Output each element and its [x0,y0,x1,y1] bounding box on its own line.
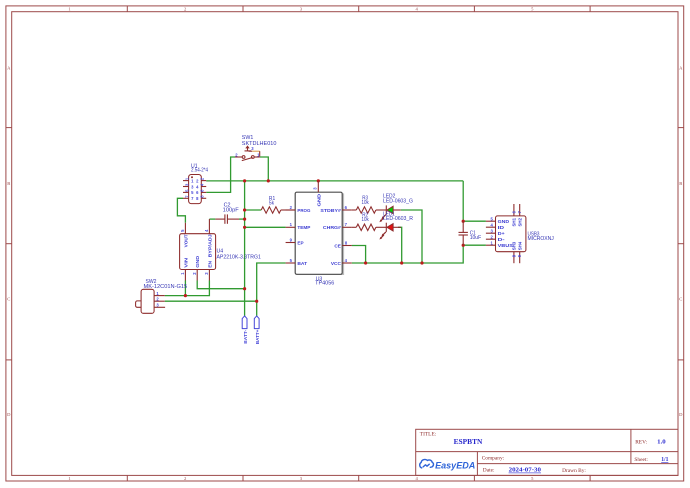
svg-text:1: 1 [290,222,293,227]
LED2 reference label [383,194,396,200]
svg-text:10uF: 10uF [470,235,482,241]
R3 reference label [362,196,368,202]
U1 reference label [191,164,198,170]
svg-text:4: 4 [345,258,348,263]
wire LED1 to VCC [398,227,402,263]
svg-text:A: A [7,66,11,71]
svg-text:Sheet:: Sheet: [634,457,648,463]
SW2 value MK-12C01N-G15 [144,284,188,290]
R3 value 10k [362,200,370,206]
wire SW1 pin1 to GND bus [260,157,269,181]
capacitor C2 symbol [215,214,239,223]
svg-text:10k: 10k [362,200,370,206]
connector USB3 symbol [486,204,526,263]
wire LED2 to VCC [401,210,422,263]
net flag BATT- [242,316,248,344]
wire SW2 pin2 to BATT+ [165,300,257,302]
svg-text:3: 3 [300,476,303,481]
SW2 pin numbers [156,291,159,308]
U3 reference label [316,276,323,282]
R1 reference label [269,196,275,202]
wire GND top bus [206,180,463,182]
svg-text:3: 3 [204,272,209,275]
SW2 reference label [146,279,157,285]
junction node VCC / LED2 [420,261,423,264]
svg-text:AP2210K-3.3TRG1: AP2210K-3.3TRG1 [217,255,262,261]
svg-text:REV:: REV: [635,440,647,446]
svg-text:CE: CE [334,243,341,249]
switch SW2 symbol [136,289,166,313]
svg-text:GND: GND [316,193,322,206]
svg-text:SH3: SH3 [512,242,518,251]
svg-text:U4: U4 [217,249,224,255]
svg-text:EN: EN [207,260,213,267]
svg-text:4: 4 [204,229,209,232]
svg-text:8: 8 [345,240,348,245]
U1 pin numbers (outside) [184,177,204,198]
svg-text:TP4056: TP4056 [315,280,334,286]
svg-text:2.54-2*4: 2.54-2*4 [191,168,208,174]
wire SW2 pin1 / U4 VIN / U4 EN [165,281,210,296]
svg-text:CHRG#: CHRG# [323,225,341,231]
svg-text:EasyEDA: EasyEDA [435,460,475,471]
wire R1 to GND [245,209,262,211]
C2 value 100pF [223,208,239,214]
svg-text:GND: GND [498,219,510,225]
svg-text:1: 1 [68,476,71,481]
svg-text:D: D [7,412,11,417]
svg-text:B: B [7,181,10,186]
svg-text:5k: 5k [269,200,275,206]
USB3 reference label [528,232,540,238]
resistor R1 symbol [261,207,295,213]
svg-text:LED-0603_R: LED-0603_R [383,216,413,222]
svg-text:1/1: 1/1 [661,457,668,463]
R2 value 10k [362,217,370,223]
resistor R3 symbol [352,207,387,213]
svg-text:VCC: VCC [331,261,341,267]
svg-text:4: 4 [415,7,418,12]
LED1 reference label [383,211,395,217]
svg-text:5: 5 [290,258,293,263]
svg-text:MK-12C01N-G15: MK-12C01N-G15 [144,284,188,290]
svg-text:GND: GND [195,255,201,268]
wire U3 BAT to BATT+ [257,263,286,316]
U1 value 2.54-2*4 [191,168,208,174]
resistor R2 symbol [352,224,387,230]
LED LED1 symbol [379,223,400,240]
SW1 pin numbers [235,146,260,157]
junction node BAT / SW2.2 [255,300,258,303]
svg-text:B: B [679,181,682,186]
wire GND vertical to BATT- [244,181,246,316]
net flag BATT+ [254,316,260,344]
wire TEMP to GND [245,226,286,228]
svg-text:10k: 10k [362,217,370,223]
wire BYP to C2 [209,218,215,220]
wire GND bus down right side [462,181,464,221]
svg-text:4: 4 [415,476,418,481]
C2 reference label [224,203,231,209]
junction node GND / U4 GND [243,287,246,290]
LED2 value LED-0603_G [383,198,413,204]
svg-text:2: 2 [156,296,159,301]
svg-text:SKTDLHE010: SKTDLHE010 [242,141,277,147]
junction node VBUS / USB VBUS / C1 [462,244,465,247]
switch SW1 symbol [235,145,260,160]
svg-text:7: 7 [345,222,348,227]
svg-text:D+: D+ [498,231,505,237]
svg-text:SH1: SH1 [512,218,518,227]
regulator U4 symbol [180,219,216,280]
svg-text:Drawn By:: Drawn By: [562,468,586,474]
svg-text:2: 2 [184,7,187,12]
U3 value TP4056 [315,280,334,286]
C1 value 10uF [470,235,482,241]
svg-text:ID: ID [498,225,505,231]
svg-text:BYP/ADJ: BYP/ADJ [207,234,213,257]
SW1 value SKTDLHE010 [242,141,277,147]
svg-text:VIN: VIN [184,257,190,268]
svg-text:C: C [679,297,682,302]
svg-text:BAT: BAT [297,261,307,267]
svg-text:Company:: Company: [482,456,505,462]
USB3 pin numbers [491,210,523,257]
wire CE to VCC [352,246,366,264]
svg-text:1.0: 1.0 [657,440,666,446]
svg-text:D-: D- [498,237,505,243]
wire USB VBUS pin [463,244,486,246]
U3 pin numbers [290,187,348,263]
IC U3 symbol [286,181,352,274]
svg-text:VOUT: VOUT [184,234,190,247]
svg-text:1: 1 [156,291,159,296]
R1 value 5k [269,200,275,206]
SW1 reference label [242,135,254,141]
svg-text:BATT-: BATT- [243,329,248,344]
junction node GND / R1 [243,208,246,211]
svg-text:5: 5 [531,476,534,481]
junction node GND bus / U3 GND pin [317,179,320,182]
svg-text:5: 5 [531,7,534,12]
svg-text:D: D [679,412,683,417]
junction node GND / USB GND / C1 [462,220,465,223]
R2 reference label [362,213,368,219]
svg-text:6: 6 [345,205,348,210]
svg-text:MICROXNJ: MICROXNJ [528,236,555,242]
U4 reference label [217,249,224,255]
svg-text:LED-0603_G: LED-0603_G [383,198,413,204]
svg-text:2: 2 [184,476,187,481]
svg-text:SH4: SH4 [517,242,523,251]
svg-text:5: 5 [180,229,185,232]
svg-text:2: 2 [192,272,197,275]
U4 pin numbers [180,229,209,275]
svg-text:2024-07-30: 2024-07-30 [509,468,541,474]
wire U3 VCC line [352,245,463,263]
wire C2 right to GND [239,218,245,220]
LED LED2 symbol [379,205,400,222]
svg-text:BATT+: BATT+ [255,329,260,344]
capacitor C1 symbol [459,221,468,245]
svg-text:ESPBTN: ESPBTN [454,437,483,446]
wire U4 GND to GND net [197,281,244,289]
svg-text:2: 2 [290,205,293,210]
wire SW1 pin2 to U1 pin6 [206,157,235,192]
U4 value AP2210K-3.3TRG1 [217,255,262,261]
svg-text:STDBY#: STDBY# [320,208,341,214]
svg-text:C: C [7,297,10,302]
svg-text:TITLE:: TITLE: [420,431,437,437]
svg-text:9: 9 [290,237,293,242]
junction node VCC / CE [364,261,367,264]
LED1 value LED-0603_R [383,216,413,222]
svg-text:PROG: PROG [297,208,310,214]
svg-text:TEMP: TEMP [297,225,311,231]
junction node GND / U3 TEMP [243,226,246,229]
wire U1 pin7 to U4 VOUT [177,198,185,223]
svg-text:3: 3 [251,146,254,151]
junction node GND / C2 [243,218,246,221]
svg-text:VBUS: VBUS [498,243,514,249]
junction node VCC / LED1 [400,261,403,264]
svg-text:1: 1 [68,7,71,12]
connector U1 symbol [183,175,206,204]
C1 reference label [470,231,476,237]
junction node VIN / SW2.1 [184,294,187,297]
svg-text:Date:: Date: [483,468,495,474]
svg-text:100pF: 100pF [223,208,239,214]
svg-text:A: A [679,66,683,71]
svg-text:3: 3 [312,187,317,190]
svg-text:1: 1 [180,272,185,275]
junction node GND bus / vertical [243,179,246,182]
USB3 value MICROXNJ [528,236,555,242]
svg-text:EP: EP [297,240,304,246]
wire USB GND pin [463,220,486,222]
junction node GND bus / SW1.1 [267,179,270,182]
svg-text:SH2: SH2 [517,218,523,227]
svg-text:3: 3 [300,7,303,12]
